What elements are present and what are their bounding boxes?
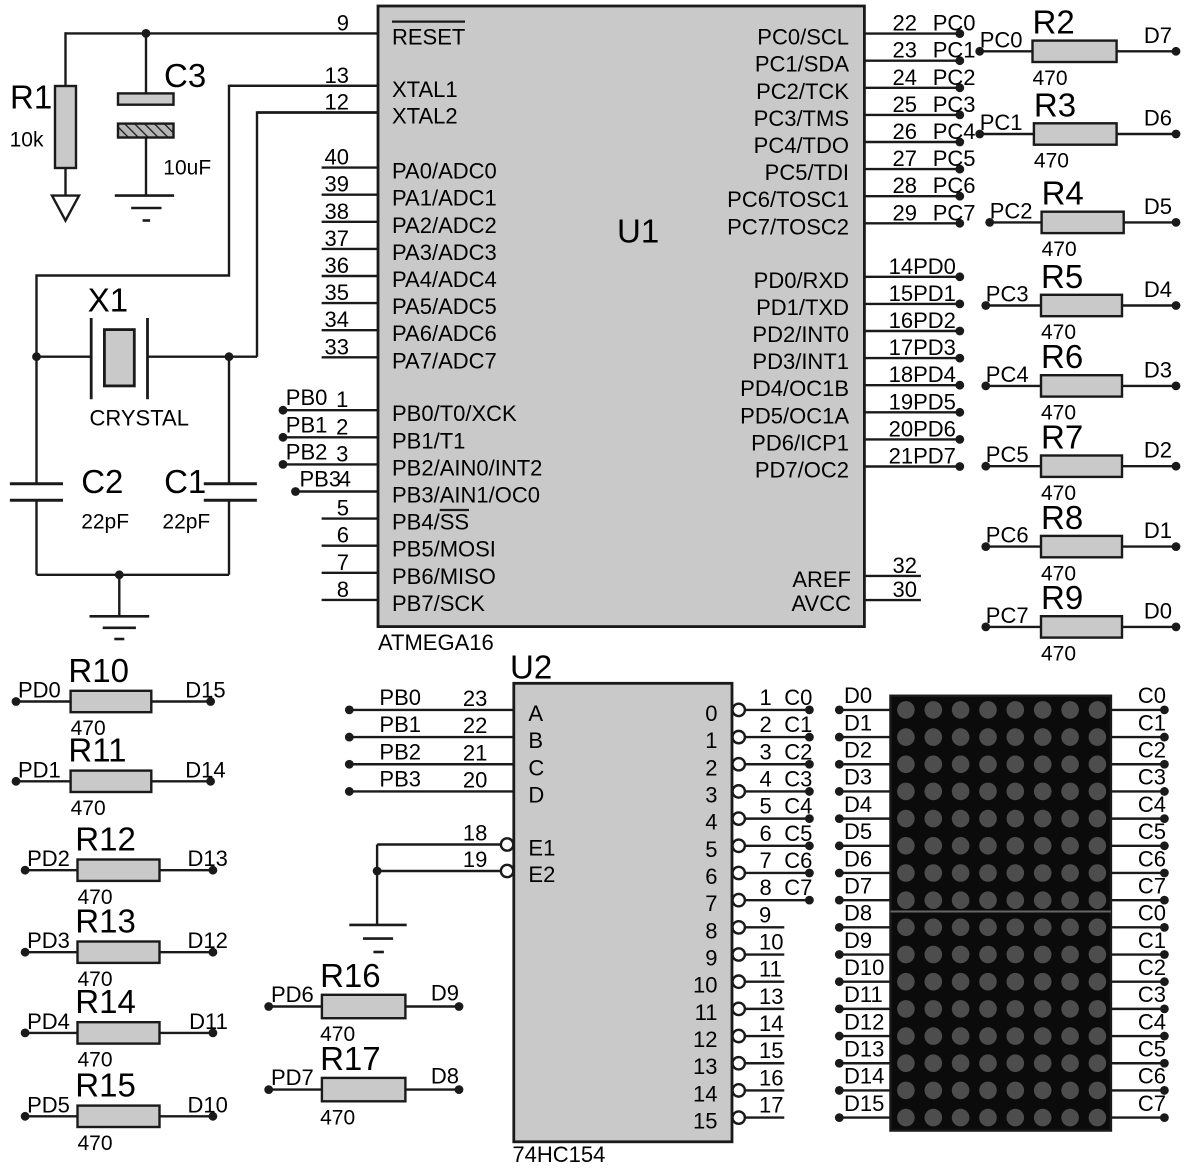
U1 pin 39 PA1/ADC1 <box>322 172 497 211</box>
svg-text:PB1/T1: PB1/T1 <box>392 428 465 453</box>
svg-text:R15: R15 <box>75 1067 136 1104</box>
svg-text:14: 14 <box>693 1081 717 1106</box>
svg-text:PC2/TCK: PC2/TCK <box>756 79 849 104</box>
svg-text:11: 11 <box>759 957 782 982</box>
svg-text:16: 16 <box>889 308 913 333</box>
svg-text:AVCC: AVCC <box>792 591 852 616</box>
svg-text:PD4: PD4 <box>913 362 956 387</box>
svg-text:470: 470 <box>1034 150 1069 173</box>
U1 pin 26 PC4/TDO with net PC4 stub <box>754 119 976 158</box>
svg-text:C6: C6 <box>1138 846 1166 871</box>
svg-text:R16: R16 <box>320 957 381 994</box>
svg-text:PB6/MISO: PB6/MISO <box>392 564 496 589</box>
svg-text:C3: C3 <box>1138 765 1166 790</box>
svg-text:C4: C4 <box>1138 792 1166 817</box>
wire crystal left horizontal <box>37 356 92 358</box>
svg-text:D11: D11 <box>189 1009 228 1034</box>
svg-text:5: 5 <box>705 837 717 862</box>
svg-text:1: 1 <box>336 387 348 412</box>
capacitor C3 10uF electrolytic <box>118 57 211 179</box>
svg-text:35: 35 <box>325 280 349 305</box>
svg-text:D8: D8 <box>431 1064 459 1089</box>
svg-text:C6: C6 <box>1138 1064 1166 1089</box>
svg-text:7: 7 <box>705 891 717 916</box>
svg-text:12: 12 <box>325 90 349 115</box>
svg-text:U2: U2 <box>510 649 552 686</box>
resistor R15 470 (PD5 to D10) <box>21 1067 228 1155</box>
svg-text:R2: R2 <box>1033 4 1075 41</box>
svg-text:D12: D12 <box>188 928 228 953</box>
svg-text:RESET: RESET <box>392 24 465 49</box>
node D13 row wire into matrix <box>835 1037 891 1068</box>
svg-text:R10: R10 <box>68 652 129 689</box>
svg-text:R11: R11 <box>68 732 126 769</box>
svg-text:PD1: PD1 <box>913 281 956 306</box>
wire R1 bottom to arrow <box>64 168 66 196</box>
svg-text:22: 22 <box>463 713 487 738</box>
svg-text:D1: D1 <box>844 710 872 735</box>
svg-text:22: 22 <box>893 11 917 36</box>
svg-text:E1: E1 <box>528 836 555 861</box>
svg-text:PB7/SCK: PB7/SCK <box>392 591 485 616</box>
svg-text:R3: R3 <box>1034 86 1076 123</box>
svg-text:PD3/INT1: PD3/INT1 <box>752 349 849 374</box>
U1 pin 27 PC5/TDI with net PC5 stub <box>765 146 976 185</box>
wire C2 top vertical <box>35 357 37 484</box>
svg-text:11: 11 <box>695 1000 718 1025</box>
capacitor C2 22pF <box>10 463 129 534</box>
svg-text:E2: E2 <box>528 862 555 887</box>
wire crystal ground rail horizontal <box>37 574 230 576</box>
wire XTAL1 net routing <box>37 86 379 357</box>
U2 pin 18 enable E1 (active low) <box>377 821 555 861</box>
wire C1 bottom vertical <box>228 500 230 575</box>
resistor R11 470 (PD1 to D14) <box>12 732 226 820</box>
svg-text:5: 5 <box>337 496 349 521</box>
node C2 column wire out of matrix (upper block) <box>1111 738 1169 769</box>
resistor R3 470 (PC1 to D6) <box>975 86 1180 172</box>
U2 pin 9 output 8 <box>705 902 784 943</box>
svg-text:PC7: PC7 <box>986 603 1029 628</box>
svg-text:CRYSTAL: CRYSTAL <box>90 406 189 431</box>
svg-text:D10: D10 <box>844 955 884 980</box>
svg-text:20: 20 <box>463 767 487 792</box>
svg-text:PC1/SDA: PC1/SDA <box>755 52 849 77</box>
node D0 row wire into matrix <box>835 683 891 714</box>
svg-text:21: 21 <box>463 740 487 765</box>
U1 pin 29 PC7/TOSC2 with net PC7 stub <box>727 200 975 239</box>
svg-text:32: 32 <box>893 553 917 578</box>
svg-text:PC5/TDI: PC5/TDI <box>765 160 849 185</box>
svg-text:PD4: PD4 <box>27 1009 70 1034</box>
svg-text:AREF: AREF <box>792 567 851 592</box>
resistor R4 470 (PC2 to D5) <box>985 175 1180 261</box>
svg-text:PD6: PD6 <box>271 982 314 1007</box>
svg-text:PC6: PC6 <box>933 173 976 198</box>
svg-text:D8: D8 <box>844 901 872 926</box>
svg-text:470: 470 <box>78 1132 113 1155</box>
svg-text:C6: C6 <box>784 848 812 873</box>
svg-text:D15: D15 <box>185 678 225 703</box>
svg-text:7: 7 <box>337 550 349 575</box>
wire C1 top vertical <box>228 357 230 484</box>
svg-text:4: 4 <box>760 766 772 791</box>
svg-text:PD1/TXD: PD1/TXD <box>756 295 849 320</box>
svg-text:23: 23 <box>893 38 917 63</box>
svg-text:4: 4 <box>705 810 717 835</box>
svg-text:8: 8 <box>337 577 349 602</box>
U1 pin 23 PC1/SDA with net PC1 stub <box>755 38 976 77</box>
svg-text:D13: D13 <box>844 1037 884 1062</box>
svg-text:PD2: PD2 <box>913 308 956 333</box>
svg-text:15: 15 <box>889 281 913 306</box>
svg-text:13: 13 <box>325 63 349 88</box>
svg-text:C1: C1 <box>164 463 206 500</box>
svg-text:PA7/ADC7: PA7/ADC7 <box>392 348 497 373</box>
U1 pin 32 AREF <box>792 553 921 592</box>
svg-text:20: 20 <box>889 416 913 441</box>
svg-text:D1: D1 <box>1144 518 1172 543</box>
svg-text:R1: R1 <box>10 79 52 116</box>
wire XTAL2 net routing <box>257 113 378 357</box>
svg-text:R12: R12 <box>75 821 136 858</box>
U1 pin 40 PA0/ADC0 <box>322 145 497 184</box>
U2 pin 19 enable E2 (active low) <box>377 847 555 887</box>
svg-text:D15: D15 <box>844 1091 884 1116</box>
svg-text:XTAL2: XTAL2 <box>392 104 458 129</box>
svg-text:15: 15 <box>759 1038 783 1063</box>
svg-text:C5: C5 <box>784 821 812 846</box>
svg-text:30: 30 <box>893 577 917 602</box>
svg-text:29: 29 <box>893 200 917 225</box>
U1 pin 6 PB5/MOSI <box>322 523 496 562</box>
U1 pin 30 AVCC <box>792 577 921 616</box>
node C0 column wire out of matrix (lower block) <box>1111 901 1169 932</box>
U2 pin 21 input C with net PB2 stub <box>345 739 545 780</box>
svg-text:PC6: PC6 <box>986 523 1029 548</box>
svg-text:40: 40 <box>325 145 349 170</box>
U1 pin 19 PD5/OC1A with net PD5 stub <box>740 389 964 428</box>
node D3 row wire into matrix <box>835 765 891 796</box>
svg-text:C2: C2 <box>81 463 123 500</box>
node C5 column wire out of matrix (upper block) <box>1111 819 1169 850</box>
U1 pin 16 PD2/INT0 with net PD2 stub <box>752 308 964 347</box>
svg-text:12: 12 <box>693 1027 717 1052</box>
node D4 row wire into matrix <box>835 792 891 823</box>
svg-text:C3: C3 <box>784 766 812 791</box>
svg-text:PD1: PD1 <box>18 757 61 782</box>
svg-text:C7: C7 <box>1138 873 1166 898</box>
node C4 column wire out of matrix (upper block) <box>1111 792 1169 823</box>
U2 pin 2 output 1 with net C1 stub <box>705 712 814 753</box>
svg-text:15: 15 <box>693 1109 717 1134</box>
svg-text:18: 18 <box>889 362 913 387</box>
svg-text:1: 1 <box>705 728 717 753</box>
U1 pin 35 PA5/ADC5 <box>322 280 497 319</box>
svg-text:D2: D2 <box>1144 438 1172 463</box>
svg-text:C0: C0 <box>1138 683 1166 708</box>
svg-text:D10: D10 <box>188 1092 228 1117</box>
ground below crystal caps <box>90 616 150 639</box>
node C5 column wire out of matrix (lower block) <box>1111 1037 1169 1068</box>
resistor R6 470 (PC4 to D3) <box>981 338 1180 424</box>
U2 pin 20 input D with net PB3 stub <box>345 766 544 807</box>
svg-text:9: 9 <box>705 946 717 971</box>
svg-text:PC2: PC2 <box>933 65 976 90</box>
svg-text:38: 38 <box>325 199 349 224</box>
node C1 column wire out of matrix (lower block) <box>1111 928 1169 959</box>
U1 pin 25 PC3/TMS with net PC3 stub <box>754 92 976 131</box>
svg-text:PD7: PD7 <box>913 444 956 469</box>
svg-text:PC3: PC3 <box>986 282 1029 307</box>
svg-text:PD7/OC2: PD7/OC2 <box>755 458 849 483</box>
U1 pin 36 PA4/ADC4 <box>322 253 497 292</box>
svg-text:PB3/AIN1/OC0: PB3/AIN1/OC0 <box>392 483 540 508</box>
node D2 row wire into matrix <box>835 738 891 769</box>
svg-text:7: 7 <box>760 848 772 873</box>
svg-text:D5: D5 <box>1144 194 1172 219</box>
IC U1 ATMEGA16 microcontroller body <box>378 6 864 655</box>
svg-text:D: D <box>528 782 544 807</box>
svg-text:PC0/SCL: PC0/SCL <box>757 25 849 50</box>
svg-text:C1: C1 <box>1138 928 1166 953</box>
svg-text:PC0: PC0 <box>980 27 1023 52</box>
U1 pin 20 PD6/ICP1 with net PD6 stub <box>751 416 964 455</box>
svg-text:D3: D3 <box>1144 357 1172 382</box>
svg-text:13: 13 <box>759 984 783 1009</box>
svg-text:PB0: PB0 <box>286 385 328 410</box>
svg-text:22pF: 22pF <box>162 511 210 534</box>
junction node E1/E2 <box>373 867 382 876</box>
svg-text:3: 3 <box>705 782 717 807</box>
svg-text:PD5: PD5 <box>27 1092 70 1117</box>
resistor R13 470 (PD3 to D12) <box>21 903 228 991</box>
svg-text:PC1: PC1 <box>980 110 1023 135</box>
svg-text:D4: D4 <box>844 792 872 817</box>
svg-text:B: B <box>528 728 543 753</box>
svg-text:PA4/ADC4: PA4/ADC4 <box>392 267 497 292</box>
U1 pin 14 PD0/RXD with net PD0 stub <box>754 254 965 293</box>
svg-text:PC7/TOSC2: PC7/TOSC2 <box>727 214 849 239</box>
svg-text:19: 19 <box>463 847 487 872</box>
node C4 column wire out of matrix (lower block) <box>1111 1009 1169 1040</box>
U1 pin 15 PD1/TXD with net PD1 stub <box>756 281 964 320</box>
svg-text:PB2/AIN0/INT2: PB2/AIN0/INT2 <box>392 455 542 480</box>
U2 pin 3 output 2 with net C2 stub <box>705 739 814 780</box>
svg-text:PD7: PD7 <box>271 1065 314 1090</box>
svg-text:PC4: PC4 <box>933 119 976 144</box>
svg-text:PB0: PB0 <box>379 685 421 710</box>
svg-text:10k: 10k <box>10 128 44 151</box>
svg-text:26: 26 <box>893 119 917 144</box>
svg-text:XTAL1: XTAL1 <box>392 77 458 102</box>
U1 pin 17 PD3/INT1 with net PD3 stub <box>752 335 964 374</box>
svg-text:PC7: PC7 <box>933 200 976 225</box>
svg-text:1: 1 <box>760 685 772 710</box>
node C7 column wire out of matrix (lower block) <box>1111 1091 1169 1122</box>
svg-text:PC4: PC4 <box>986 362 1029 387</box>
U1 pin 22 PC0/SCL with net PC0 stub <box>757 11 975 50</box>
svg-text:PD5/OC1A: PD5/OC1A <box>740 403 849 428</box>
U1 pin 28 PC6/TOSC1 with net PC6 stub <box>727 173 975 212</box>
svg-text:D6: D6 <box>1144 106 1172 131</box>
U1 pin 21 PD7/OC2 with net PD7 stub <box>755 444 964 483</box>
svg-text:PB0/T0/XCK: PB0/T0/XCK <box>392 401 517 426</box>
svg-text:2: 2 <box>760 712 772 737</box>
svg-text:C4: C4 <box>1138 1009 1166 1034</box>
svg-text:6: 6 <box>760 821 772 846</box>
svg-text:PD6: PD6 <box>913 416 956 441</box>
ground arrow below R1 <box>52 196 79 221</box>
U2 pin 1 output 0 with net C0 stub <box>705 685 814 726</box>
node C6 column wire out of matrix (lower block) <box>1111 1064 1169 1095</box>
svg-text:PC6/TOSC1: PC6/TOSC1 <box>727 187 849 212</box>
node D14 row wire into matrix <box>835 1064 891 1095</box>
resistor R7 470 (PC5 to D2) <box>981 419 1180 505</box>
junction node ground rail <box>115 570 124 579</box>
svg-text:36: 36 <box>325 253 349 278</box>
U2 pin 22 input B with net PB1 stub <box>345 712 543 753</box>
wire ground stem <box>118 575 120 617</box>
svg-text:PB1: PB1 <box>379 712 421 737</box>
resistor R5 470 (PC3 to D4) <box>981 258 1180 344</box>
svg-text:27: 27 <box>893 146 917 171</box>
node C7 column wire out of matrix (upper block) <box>1111 873 1169 904</box>
svg-text:D5: D5 <box>844 819 872 844</box>
svg-text:D0: D0 <box>1144 598 1172 623</box>
svg-text:PD5: PD5 <box>913 389 956 414</box>
resistor R16 470 (PD6 to D9) <box>264 957 463 1046</box>
svg-text:470: 470 <box>71 797 106 820</box>
svg-text:D13: D13 <box>188 846 228 871</box>
svg-text:D3: D3 <box>844 765 872 790</box>
svg-text:5: 5 <box>760 794 772 819</box>
svg-text:R8: R8 <box>1041 499 1083 536</box>
wire C3 top vertical <box>145 33 147 93</box>
svg-text:39: 39 <box>325 172 349 197</box>
svg-text:C5: C5 <box>1138 1037 1166 1062</box>
resistor R1 10k vertical <box>10 79 76 169</box>
U1 pin 3 PB2/AIN0/INT2 with net PB2 stub <box>279 439 543 480</box>
svg-text:D2: D2 <box>844 738 872 763</box>
wire R1 top vertical <box>64 32 66 86</box>
U1 pin 18 PD4/OC1B with net PD4 stub <box>740 362 964 401</box>
svg-text:3: 3 <box>336 441 348 466</box>
U1 pin 8 PB7/SCK <box>322 577 486 616</box>
U2 pin 6 output 5 with net C5 stub <box>705 821 814 862</box>
svg-text:PA0/ADC0: PA0/ADC0 <box>392 159 497 184</box>
U1 pin 24 PC2/TCK with net PC2 stub <box>756 65 975 104</box>
svg-text:8: 8 <box>705 918 717 943</box>
node C3 column wire out of matrix (upper block) <box>1111 765 1169 796</box>
wire C3 bottom vertical <box>145 138 147 196</box>
svg-text:D14: D14 <box>185 757 225 782</box>
U2 pin 11 output 10 <box>693 957 784 998</box>
svg-text:C2: C2 <box>1138 955 1166 980</box>
resistor R2 470 (PC0 to D7) <box>975 4 1180 90</box>
svg-text:R7: R7 <box>1041 419 1083 456</box>
svg-text:PD0/RXD: PD0/RXD <box>754 268 849 293</box>
svg-text:C3: C3 <box>164 57 206 94</box>
svg-text:470: 470 <box>1041 643 1076 666</box>
svg-text:PC5: PC5 <box>933 146 976 171</box>
svg-text:37: 37 <box>325 226 349 251</box>
U2 pin 7 output 6 with net C6 stub <box>705 848 814 889</box>
svg-text:17: 17 <box>889 335 913 360</box>
svg-text:D0: D0 <box>844 683 872 708</box>
svg-text:PB3: PB3 <box>300 467 342 492</box>
svg-text:PB2: PB2 <box>379 739 421 764</box>
svg-text:R17: R17 <box>320 1040 381 1077</box>
svg-text:PD6/ICP1: PD6/ICP1 <box>751 430 849 455</box>
svg-text:C7: C7 <box>784 875 812 900</box>
U1 pin 38 PA2/ADC2 <box>322 199 497 238</box>
svg-text:PC5: PC5 <box>986 442 1029 467</box>
svg-text:C: C <box>528 755 544 780</box>
svg-text:C7: C7 <box>1138 1091 1166 1116</box>
U1 pin 2 PB1/T1 with net PB1 stub <box>279 412 466 453</box>
svg-text:PD4/OC1B: PD4/OC1B <box>740 376 849 401</box>
svg-text:A: A <box>528 701 543 726</box>
U2 pin 10 output 9 <box>705 930 784 971</box>
U2 pin 8 output 7 with net C7 stub <box>705 875 814 916</box>
svg-text:C5: C5 <box>1138 819 1166 844</box>
svg-text:2: 2 <box>336 414 348 439</box>
svg-text:C4: C4 <box>784 794 812 819</box>
svg-text:C0: C0 <box>784 685 812 710</box>
LED dot matrix display body (two 8x8 blocks) <box>891 696 1111 1131</box>
node D12 row wire into matrix <box>835 1009 891 1040</box>
svg-text:PC1: PC1 <box>933 38 976 63</box>
svg-text:PC3: PC3 <box>933 92 976 117</box>
svg-text:ATMEGA16: ATMEGA16 <box>378 630 494 655</box>
svg-text:PC3/TMS: PC3/TMS <box>754 106 849 131</box>
node C3 column wire out of matrix (lower block) <box>1111 982 1169 1013</box>
U1 pin 9 RESET (wire from R1/C3 node) <box>146 10 465 49</box>
svg-text:21: 21 <box>889 444 913 469</box>
svg-text:X1: X1 <box>88 281 128 318</box>
svg-text:D11: D11 <box>844 982 883 1007</box>
wire E1/E2 to ground vertical <box>376 845 378 925</box>
svg-text:C2: C2 <box>784 739 812 764</box>
junction node at R1/C3/RESET <box>142 29 151 38</box>
node C0 column wire out of matrix (upper block) <box>1111 683 1169 714</box>
svg-text:PB4/SS: PB4/SS <box>392 510 469 535</box>
ground below U2 enables <box>349 925 406 952</box>
svg-text:PA2/ADC2: PA2/ADC2 <box>392 213 497 238</box>
svg-text:13: 13 <box>693 1054 717 1079</box>
svg-text:PC4/TDO: PC4/TDO <box>754 133 849 158</box>
svg-text:14: 14 <box>759 1011 783 1036</box>
node D7 row wire into matrix <box>835 873 891 904</box>
svg-text:D7: D7 <box>1144 23 1172 48</box>
svg-text:D7: D7 <box>844 873 872 898</box>
resistor R9 470 (PC7 to D0) <box>981 579 1180 665</box>
svg-text:U1: U1 <box>617 213 659 250</box>
svg-text:PD0: PD0 <box>18 678 61 703</box>
svg-text:10uF: 10uF <box>163 156 211 179</box>
U2 pin 14 output 12 <box>693 1011 784 1052</box>
svg-text:2: 2 <box>705 755 717 780</box>
svg-text:470: 470 <box>320 1106 355 1129</box>
ground below C3 <box>115 196 174 221</box>
svg-text:R14: R14 <box>75 983 136 1020</box>
svg-text:D6: D6 <box>844 846 872 871</box>
node D5 row wire into matrix <box>835 819 891 850</box>
svg-text:R4: R4 <box>1042 175 1084 212</box>
svg-text:PA5/ADC5: PA5/ADC5 <box>392 294 497 319</box>
svg-text:C2: C2 <box>1138 738 1166 763</box>
